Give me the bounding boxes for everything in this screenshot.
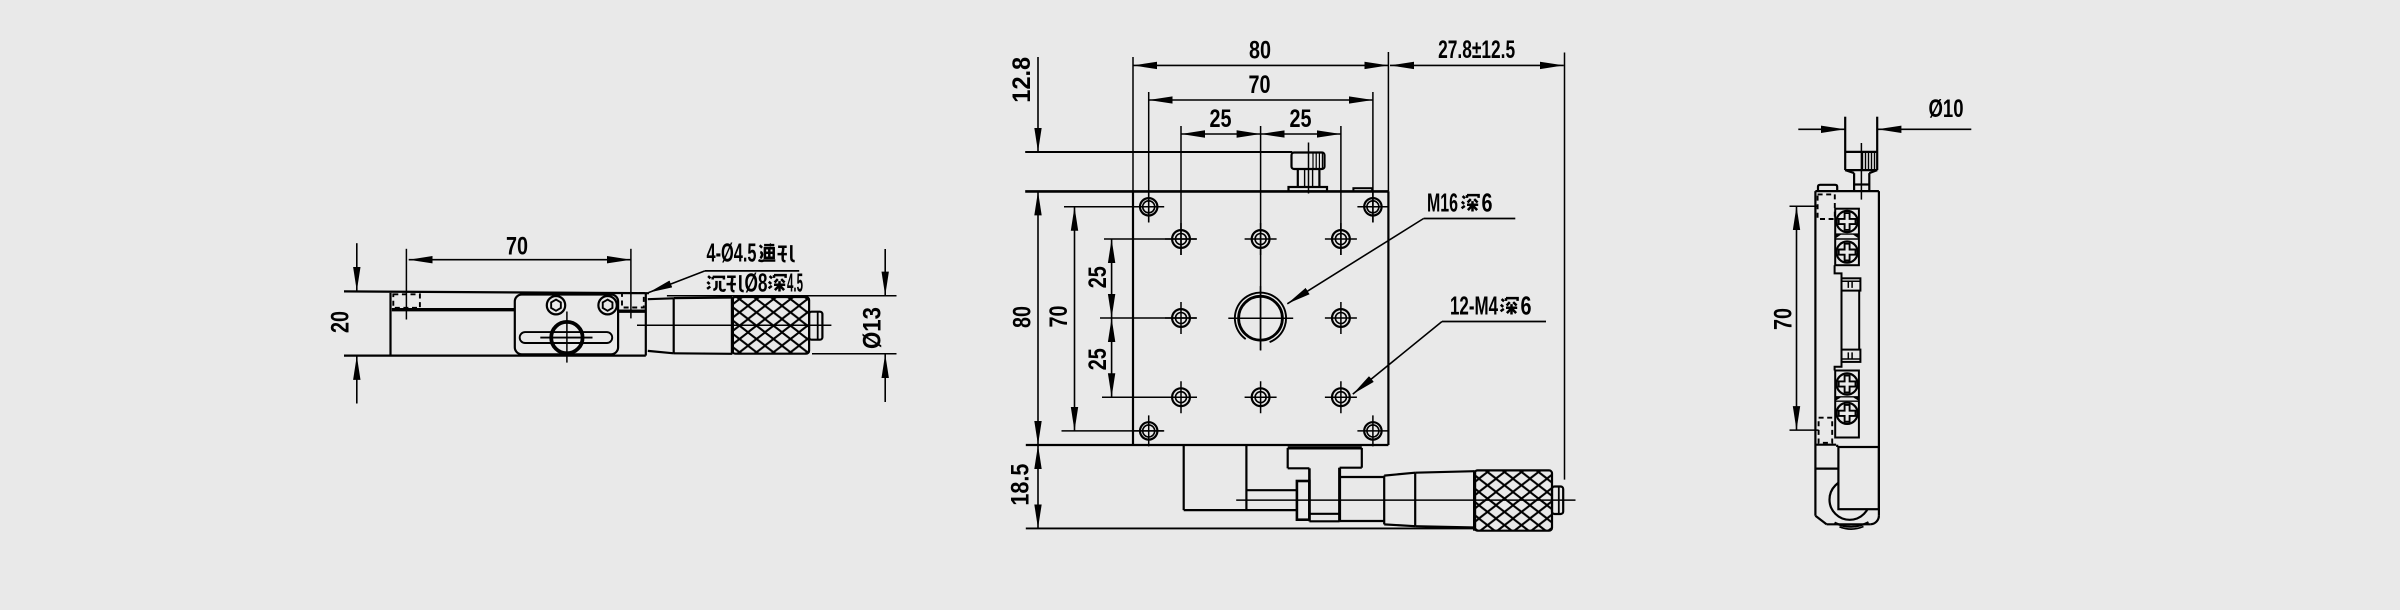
small pad on plate top edge [1353,188,1372,191]
dimension 80 (top) [1133,64,1388,66]
phillips screw 1 [1837,211,1858,232]
bottom chamfer [1815,516,1826,525]
svg-text:70: 70 [1770,308,1798,330]
bottom knob arcs [1835,522,1869,527]
knob vertical centerline [566,312,568,363]
leader 12-M4 deep 6 [1353,322,1442,395]
stage bottom edge [344,355,646,357]
dimension 80 (left vertical) [1037,191,1039,445]
knurled knob [732,297,809,354]
corner hole bottom-left [1133,415,1164,446]
knob top line [1845,151,1877,153]
slot (rounded) [520,332,613,343]
svg-text:12.8: 12.8 [1008,57,1036,103]
phillips screw 4 [1837,403,1858,424]
lower stem [1853,173,1855,191]
stage right edge [645,293,647,355]
phillips screw 3 [1837,373,1858,394]
M4 holes row 2 [1165,223,1197,255]
leader M16 deep 6 [1287,219,1423,304]
dimension 70 (left vertical) [1074,207,1076,431]
stage top edge [344,291,649,293]
svg-text:70: 70 [506,232,528,260]
bottom edge [1827,523,1871,525]
step above bottom frame [1835,362,1842,371]
step below top frame [1835,265,1842,278]
centerline [1236,499,1575,501]
stem [1308,468,1311,521]
center hole M16 [1228,286,1293,350]
bottom right corner [1870,515,1879,524]
svg-text:27.8±12.5: 27.8±12.5 [1438,36,1515,64]
svg-text:6: 6 [1482,188,1493,218]
counterbore hole left (dashed) [393,294,420,308]
gib block 1 [1842,278,1861,290]
svg-text:4.5: 4.5 [787,268,803,298]
micrometer centerline [637,324,831,326]
lock knob circle [551,322,582,353]
lock nut [1297,481,1310,520]
micrometer (left view) [637,297,831,354]
plate right edge [1387,191,1389,445]
slot horizontal centerline [540,337,592,339]
body left edge [1814,191,1816,516]
barrel bottom [674,352,733,355]
knurled knob [1475,470,1552,530]
label counterbore D8 deep 4.5 [707,276,725,291]
taper [1384,473,1415,476]
dimension 18.5 (left vertical) [1037,445,1039,528]
taper divider [673,298,675,353]
svg-text:80: 80 [1008,306,1036,328]
svg-text:25: 25 [1210,105,1232,133]
plate bottom edge [1026,444,1389,446]
M4 holes row 4 [1165,381,1197,413]
svg-text:80: 80 [1249,36,1271,64]
hole centerline left [405,249,407,320]
taper bottom [648,351,674,353]
dimension D10 [1798,128,1845,130]
dashed side hole top [1818,194,1835,219]
svg-text:Ø10: Ø10 [1929,95,1964,123]
center block (rounded) [515,295,618,355]
D10 stem [1845,117,1877,200]
phillips screw 2 [1837,242,1858,263]
roller circle (behind cylinder) [1830,479,1870,519]
dimension 20 (left view) [356,243,358,403]
svg-text:18.5: 18.5 [1006,464,1034,506]
svg-text:25: 25 [1084,348,1112,370]
T bar [1288,446,1362,449]
dimension 25 upper (left vertical) [1111,239,1113,318]
knob bottom [1845,169,1877,171]
bottom micrometer assembly (plan view) [1184,445,1576,531]
leader 4-D4.5 (left view) [649,271,705,293]
screw frame top pair [1835,209,1859,266]
dashed side hole bottom [1819,418,1833,443]
dimension 25 lower (left vertical) [1111,318,1113,397]
gib block 2 [1842,350,1861,362]
hole centerline right [630,249,632,319]
hex screw 1 [547,296,565,314]
svg-text:4-Ø4.5: 4-Ø4.5 [707,238,757,268]
taper top [648,297,674,300]
dimension 25 right (top) [1261,133,1341,135]
stage left edge [389,293,391,356]
micrometer cylinder (front) [1838,447,1879,509]
chamfer [1845,170,1854,173]
mount block [1340,476,1385,478]
right extension line (27.8 dim) [1564,53,1566,480]
body top edge [1815,190,1879,192]
spindle top [1246,489,1297,491]
counterbore hole right (dashed) [622,293,644,308]
dimension 25 left (top) [1181,133,1261,135]
svg-text:70: 70 [1249,71,1271,99]
rail channel [1841,291,1843,350]
corner hole top-right [1357,191,1388,222]
dimension 70 (left view) [409,259,631,261]
barrel top [674,296,733,299]
slot line left (thick) [392,308,516,311]
dimension 70 (top) [1149,99,1373,101]
body division lines [1815,444,1836,446]
svg-text:M16: M16 [1427,188,1458,218]
hex screw 2 [598,296,616,314]
slot line right (thick) [618,310,646,313]
end cap [809,312,822,340]
corner hole top-left [1133,191,1164,222]
L bracket [1183,445,1185,510]
plate top edge B [1025,190,1388,193]
svg-text:25: 25 [1084,266,1112,288]
end cap [1552,487,1563,515]
svg-text:12-M4: 12-M4 [1450,291,1498,321]
dimension 70 (right view) [1796,206,1798,430]
dimension D13 (left view) [667,249,897,402]
plate left edge [1132,191,1134,445]
svg-text:6: 6 [1521,291,1532,321]
top tab [1818,185,1837,191]
screw frame bottom pair [1835,371,1859,438]
body right edge [1878,191,1880,515]
adjustment knob on stage [1289,143,1328,194]
dimension 27.8+-12.5 (top) [1390,64,1564,66]
dimension 12.8 (left) [1037,57,1039,152]
svg-text:70: 70 [1045,306,1073,328]
moving-stage top line A [1025,151,1292,153]
corner hole bottom-right [1357,415,1388,446]
knob centerline [1860,143,1862,200]
svg-text:Ø8: Ø8 [745,268,768,298]
horizontal extension lines (left dims) [1062,207,1197,431]
svg-text:Ø13: Ø13 [859,307,887,349]
svg-text:20: 20 [327,311,355,333]
envelope bottom line [1026,527,1475,529]
knurl hatch [1863,153,1875,169]
vertical extension lines (top dims) [1133,52,1565,480]
M4 holes row 3 [1165,302,1197,334]
barrel [1415,471,1474,473]
svg-text:25: 25 [1290,105,1312,133]
